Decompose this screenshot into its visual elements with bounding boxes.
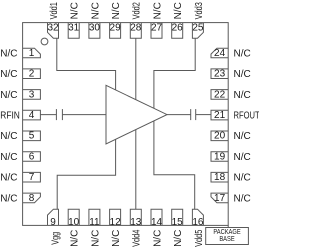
svg-text:N/C: N/C: [111, 2, 122, 19]
svg-text:5: 5: [29, 131, 35, 142]
svg-text:28: 28: [130, 22, 142, 33]
svg-text:26: 26: [172, 22, 184, 33]
svg-text:N/C: N/C: [234, 173, 251, 184]
svg-text:N/C: N/C: [173, 2, 184, 19]
svg-text:N/C: N/C: [0, 131, 17, 142]
svg-text:N/C: N/C: [234, 152, 251, 163]
svg-text:21: 21: [214, 110, 226, 121]
svg-text:Vdd4: Vdd4: [131, 230, 142, 247]
svg-text:N/C: N/C: [234, 48, 251, 59]
svg-text:22: 22: [214, 89, 226, 100]
svg-text:N/C: N/C: [90, 2, 101, 19]
svg-text:N/C: N/C: [0, 48, 17, 59]
svg-text:9: 9: [50, 217, 56, 228]
svg-text:Vgg: Vgg: [49, 232, 60, 245]
svg-text:20: 20: [214, 131, 226, 142]
svg-text:RFOUT: RFOUT: [234, 109, 260, 120]
svg-text:N/C: N/C: [70, 2, 81, 19]
svg-text:N/C: N/C: [0, 69, 17, 80]
svg-text:Vdd3: Vdd3: [193, 2, 204, 19]
svg-text:N/C: N/C: [70, 230, 81, 247]
svg-text:N/C: N/C: [234, 131, 251, 142]
svg-text:7: 7: [29, 172, 35, 183]
svg-text:14: 14: [151, 217, 163, 228]
svg-text:N/C: N/C: [0, 152, 17, 163]
svg-text:17: 17: [214, 193, 226, 204]
svg-text:18: 18: [214, 172, 226, 183]
svg-text:27: 27: [151, 22, 163, 33]
svg-text:31: 31: [68, 22, 80, 33]
svg-text:N/C: N/C: [234, 90, 251, 101]
svg-text:N/C: N/C: [234, 193, 251, 204]
svg-text:30: 30: [89, 22, 101, 33]
svg-text:N/C: N/C: [0, 173, 17, 184]
svg-text:Vdd1: Vdd1: [48, 2, 59, 19]
svg-text:Vdd2: Vdd2: [131, 2, 142, 19]
svg-text:N/C: N/C: [90, 230, 101, 247]
svg-text:13: 13: [130, 217, 142, 228]
svg-text:N/C: N/C: [0, 90, 17, 101]
svg-text:25: 25: [192, 22, 204, 33]
svg-text:19: 19: [214, 151, 226, 162]
svg-text:4: 4: [29, 110, 35, 121]
svg-text:N/C: N/C: [0, 193, 17, 204]
svg-text:32: 32: [47, 22, 59, 33]
svg-text:BASE: BASE: [219, 236, 235, 244]
svg-text:N/C: N/C: [173, 230, 184, 247]
svg-text:N/C: N/C: [152, 2, 163, 19]
svg-text:1: 1: [29, 48, 35, 59]
svg-text:24: 24: [214, 48, 226, 59]
svg-text:11: 11: [89, 217, 100, 228]
svg-text:N/C: N/C: [111, 230, 122, 247]
svg-text:10: 10: [68, 217, 80, 228]
svg-text:RFIN: RFIN: [0, 110, 20, 121]
svg-text:N/C: N/C: [152, 230, 163, 247]
svg-text:N/C: N/C: [234, 69, 251, 80]
svg-text:Vdd5: Vdd5: [193, 230, 204, 247]
svg-text:16: 16: [192, 217, 204, 228]
svg-text:15: 15: [172, 217, 184, 228]
svg-text:3: 3: [29, 89, 35, 100]
svg-text:2: 2: [29, 69, 35, 80]
svg-text:23: 23: [214, 69, 226, 80]
svg-text:8: 8: [29, 193, 35, 204]
svg-text:6: 6: [29, 151, 35, 162]
svg-text:12: 12: [110, 217, 122, 228]
svg-text:29: 29: [110, 22, 122, 33]
